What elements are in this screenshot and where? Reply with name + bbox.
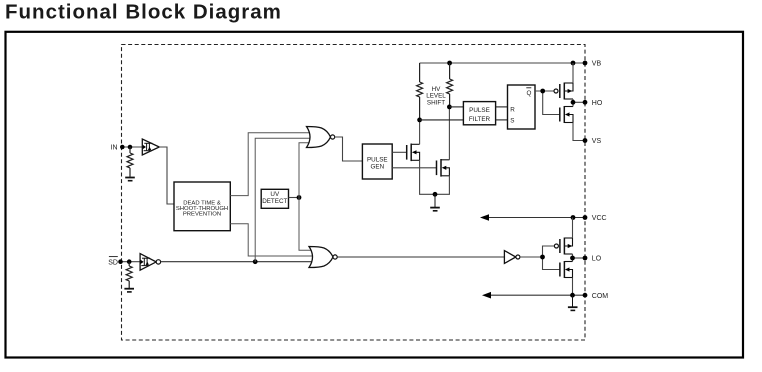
wire pulse filter to latch S [496, 119, 508, 121]
NOR gate G2 [309, 247, 337, 268]
node VB/R2 junction [447, 61, 452, 66]
svg-text:VB: VB [592, 61, 602, 68]
wire VB rail [420, 62, 585, 64]
svg-text:LO: LO [592, 256, 602, 263]
IC dashed boundary [122, 45, 586, 341]
wire dead-time bottom output to gate G2 [230, 224, 314, 256]
transistor Q2 (level-shift NMOS) [437, 159, 450, 177]
wire Q5 source to VCC [572, 218, 574, 239]
ground (COM) [568, 295, 578, 310]
wire dead-time top output to gate G1 [230, 133, 313, 196]
wire Q3 source to VB [572, 63, 574, 83]
transistor Q4 (high-side NMOS) [560, 106, 573, 123]
wire HO node [573, 99, 585, 107]
wire R2 to pulse filter R input [449, 106, 463, 108]
wire pulse gen to Q2 gate [392, 167, 436, 169]
node UV bus junction [297, 195, 302, 200]
transistor Q6 (low-side NMOS) [560, 261, 573, 278]
node HO junction [571, 100, 576, 105]
pin VS [583, 138, 602, 145]
node SD branch junction [253, 259, 258, 264]
wire level-shift source rail [420, 160, 450, 194]
svg-text:VCC: VCC [592, 215, 607, 222]
wire Q4 source to VS [573, 123, 585, 141]
resistor R1 (HV level shift) [417, 63, 423, 120]
block dead time & shoot-through prevention [174, 182, 230, 231]
wire LO node [573, 254, 586, 262]
resistor R_IN (input pulldown) [127, 147, 133, 177]
wire Q6 source to COM [572, 278, 574, 296]
node source rail junction [433, 192, 438, 197]
pin VCC [583, 215, 607, 222]
node IN junction [128, 145, 133, 150]
node LO junction [570, 256, 575, 261]
wire G1 output to pulse gen [335, 137, 363, 161]
svg-text:R: R [510, 107, 515, 114]
pin HO [583, 100, 603, 107]
svg-text:SHIFT: SHIFT [427, 99, 445, 106]
wire SD pin to schmitt inverter [121, 261, 142, 263]
wire latch Q to high-side driver [535, 91, 559, 115]
wire UV bus up to gate G1 [299, 143, 313, 198]
node VB/driver junction [571, 61, 576, 66]
pin IN [111, 145, 125, 152]
node R1 to S-line junction [417, 118, 422, 123]
resistor R2 (HV level shift) [447, 63, 453, 107]
ground (IN pulldown) [125, 178, 135, 181]
svg-text:S: S [510, 118, 514, 125]
resistor R_SD (input pulldown) [126, 262, 132, 288]
schmitt inverter U2 [140, 254, 160, 271]
wire VCC rail with arrow [480, 214, 585, 221]
svg-text:PULSE: PULSE [367, 156, 388, 163]
wire G2 output to inverter U4 [337, 256, 504, 258]
wire SD line to gate G2 [161, 261, 314, 263]
wire pulse filter to latch R [496, 106, 508, 108]
svg-text:IN: IN [111, 145, 118, 152]
wire Q2 drain up to R2 [448, 107, 450, 160]
pin SD (active low) [108, 257, 123, 267]
node VCC junction [571, 215, 576, 220]
svg-text:Functional Block Diagram: Functional Block Diagram [5, 1, 282, 24]
node COM junction [570, 293, 575, 298]
node inverter branch junction [540, 255, 545, 260]
label HV LEVEL SHIFT [426, 86, 446, 107]
svg-text:COM: COM [592, 293, 609, 300]
node Q branch junction [540, 89, 545, 94]
node SD junction [127, 259, 132, 264]
pin LO [583, 256, 602, 263]
wire COM rail with arrow [482, 292, 585, 299]
wire UV bus down to gate G2 [299, 198, 315, 251]
wire pulse gen to Q1 gate [392, 151, 406, 153]
transistor Q3 (high-side PMOS) [554, 83, 573, 100]
wire inverter to low-side driver gates [520, 246, 560, 270]
svg-text:DETECT: DETECT [262, 198, 287, 205]
node R2 to R-line junction [447, 105, 452, 110]
svg-text:SD: SD [108, 260, 118, 267]
block pulse filter [463, 102, 495, 125]
svg-text:HO: HO [592, 100, 603, 107]
svg-text:PULSE: PULSE [469, 107, 490, 114]
svg-text:PREVENTION: PREVENTION [183, 212, 221, 218]
block UV detect [261, 189, 288, 208]
svg-text:GEN: GEN [370, 163, 384, 170]
svg-text:FILTER: FILTER [469, 116, 491, 123]
NOR gate G1 [307, 127, 335, 148]
wire IN pin to schmitt buffer [123, 146, 143, 148]
svg-text:Q: Q [527, 90, 532, 97]
wire UV detect output [289, 197, 300, 199]
ground (SD pulldown) [124, 289, 134, 292]
inverter U4 [504, 251, 520, 264]
schmitt buffer U1 [142, 139, 159, 155]
wire R1 to pulse filter S input [420, 119, 464, 121]
transistor Q1 (level-shift NMOS) [407, 144, 420, 162]
wire buffer output to dead-time block [159, 147, 174, 204]
wire Q1 drain up to R1 [419, 120, 421, 144]
latch U3 (RS latch) [508, 85, 536, 129]
pin COM [583, 293, 609, 300]
pin VB [583, 61, 602, 68]
svg-text:VS: VS [592, 138, 602, 145]
transistor Q5 (low-side PMOS) [554, 238, 572, 255]
block pulse gen [362, 144, 392, 179]
ground (level shift) [430, 194, 440, 211]
wire SD branch up to gate G1 [255, 138, 313, 261]
